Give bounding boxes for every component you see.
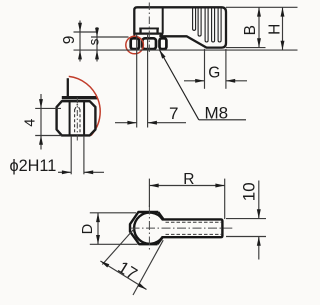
svg-text:ϕ2H11: ϕ2H11 [10, 157, 57, 175]
dimension 4 [35, 107, 61, 109]
dimension G [204, 49, 206, 89]
detail: hex nut enlarged [57, 101, 96, 135]
svg-text:s: s [87, 38, 102, 45]
dimension R [148, 179, 150, 207]
detail: hidden tapped hole [75, 104, 80, 135]
grip rib slots [193, 8, 196, 30]
svg-text:G: G [208, 64, 220, 81]
hub edge line [159, 8, 162, 36]
svg-text:10: 10 [239, 182, 258, 201]
dimension B [258, 7, 260, 47]
M8 label with leader [160, 50, 246, 120]
dimension D [90, 212, 136, 214]
plan view: threaded shaft [162, 219, 223, 237]
plan view centre lines [131, 227, 233, 229]
dimension H [282, 7, 284, 50]
hex nut: three faces [131, 38, 167, 49]
dimension 10 [226, 218, 266, 220]
serrated washer [139, 27, 159, 29]
detail: nut centre line [76, 98, 78, 141]
red detail circle [126, 36, 144, 54]
dimension phi2H11 [70, 136, 72, 175]
detail: red arc [69, 76, 100, 135]
plan view: hex right corner stubs [158, 212, 163, 219]
top reference line (to B,H) [226, 6, 298, 8]
svg-text:D: D [80, 224, 96, 234]
svg-text:B: B [242, 25, 259, 35]
thread root dashed lines [166, 221, 222, 223]
svg-text:R: R [183, 171, 194, 188]
stud centre line [148, 3, 150, 55]
svg-text:M8: M8 [205, 104, 229, 123]
bottom reference line (nut bottom, to H) [74, 49, 298, 51]
svg-text:H: H [266, 24, 283, 35]
dimension s [91, 36, 129, 38]
B bottom reference line [226, 47, 266, 49]
plan view: head circle [134, 213, 163, 244]
body edge stub behind nut [133, 34, 135, 38]
plan view: hex flats [130, 212, 158, 244]
dimension 17 (diagonal) [102, 228, 135, 265]
svg-text:4: 4 [22, 119, 38, 127]
detail: body corner [67, 78, 69, 96]
detail: washer band [62, 96, 98, 99]
svg-text:7: 7 [169, 104, 178, 123]
dimension 9 [74, 31, 98, 33]
dimension 7 [136, 34, 138, 128]
svg-text:9: 9 [61, 36, 78, 45]
lever body (side view) [134, 7, 226, 47]
